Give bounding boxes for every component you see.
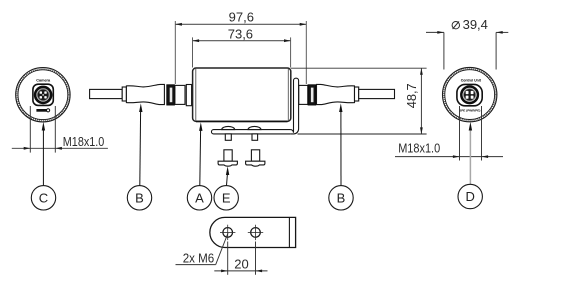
balloon B1 leader bbox=[139, 103, 142, 185]
bracket plate top view bbox=[210, 217, 296, 247]
bolt 1 (M6 screw) bbox=[218, 150, 237, 166]
svg-text:Control Unit: Control Unit bbox=[461, 78, 482, 82]
dimension 97,6 line bbox=[175, 23, 306, 25]
svg-text:39,4: 39,4 bbox=[463, 17, 488, 32]
svg-text:B: B bbox=[337, 190, 346, 205]
left cable bbox=[90, 89, 123, 98]
balloon C leader bbox=[42, 122, 45, 186]
right connector outer circle (knurled rim) bbox=[443, 67, 497, 121]
dimension 73,6 extension lines bbox=[193, 37, 291, 67]
M18x1.0 left dimension line bbox=[12, 147, 108, 149]
left nut cylinder bbox=[175, 85, 185, 104]
left connector pins bbox=[40, 91, 47, 98]
20 arrows bbox=[221, 270, 262, 273]
svg-text:M18x1.0: M18x1.0 bbox=[63, 134, 105, 149]
left knurled ring (dark) bbox=[167, 85, 175, 105]
left slot marking below connector bbox=[36, 109, 49, 112]
M18x1.0 right dimension line bbox=[395, 156, 503, 158]
right nut cylinder bbox=[299, 85, 308, 104]
right boot (strain relief) bbox=[317, 84, 355, 104]
left flange ring at body bbox=[186, 85, 191, 106]
Ø39,4 text with diameter symbol bbox=[452, 17, 488, 32]
svg-text:A: A bbox=[195, 190, 204, 205]
right connector socket ring bbox=[461, 87, 478, 104]
dimension 73,6 arrows bbox=[193, 39, 291, 42]
dimension 97,6 extension lines bbox=[175, 21, 306, 84]
20 dimension extension lines bbox=[228, 242, 256, 275]
svg-text:B: B bbox=[135, 190, 144, 205]
svg-text:M18x1.0: M18x1.0 bbox=[398, 141, 440, 156]
48,7 top extension line bbox=[291, 67, 427, 69]
svg-text:Camera: Camera bbox=[36, 78, 51, 82]
stud dome cap 2 on bracket bbox=[248, 126, 261, 129]
balloon C bbox=[31, 186, 55, 210]
svg-text:48,7: 48,7 bbox=[404, 83, 419, 108]
balloon B1 bbox=[127, 186, 151, 210]
M18x1.0 right extension lines bbox=[460, 106, 482, 161]
48,7 dimension line bbox=[420, 68, 422, 134]
balloon D bbox=[458, 184, 482, 208]
svg-text:2x M6: 2x M6 bbox=[183, 250, 215, 265]
hole 2 with crosshair bbox=[248, 225, 263, 240]
balloon A bbox=[187, 186, 211, 210]
2x M6 label with underline and leader bbox=[176, 233, 229, 265]
48,7 bottom extension line bbox=[298, 133, 427, 135]
dimension 73,6 line bbox=[193, 40, 291, 42]
svg-text:E: E bbox=[222, 190, 231, 205]
48,7 arrows bbox=[420, 68, 423, 134]
body right end cap line bbox=[287, 69, 289, 121]
balloon B2 leader bbox=[339, 103, 342, 185]
hole 1 with crosshair bbox=[220, 225, 235, 240]
balloon B2 bbox=[329, 186, 353, 210]
left cable collar bbox=[122, 87, 126, 101]
svg-text:SPE (PWR/PE): SPE (PWR/PE) bbox=[459, 108, 480, 112]
bracket bend and vertical flange bbox=[290, 78, 298, 134]
svg-text:D: D bbox=[466, 189, 475, 204]
M18x1.0 left arrows bbox=[24, 147, 62, 150]
balloon E leader bbox=[226, 166, 229, 185]
sensor body bbox=[193, 68, 291, 121]
20 dimension line bbox=[214, 270, 267, 272]
right connector body rounded square bbox=[457, 84, 482, 105]
body bottom edge emphasis bbox=[196, 120, 288, 122]
Ø39,4 extension lines bbox=[444, 32, 496, 69]
stud 1 below bracket bbox=[225, 134, 231, 140]
stud dome cap 1 on bracket bbox=[222, 126, 235, 129]
balloon E bbox=[214, 186, 238, 210]
svg-text:C: C bbox=[39, 190, 48, 205]
dimension 97,6 arrows bbox=[175, 23, 306, 26]
right connector pins (D-coded) bbox=[466, 91, 474, 99]
bracket bend line (top view) bbox=[288, 217, 290, 247]
stud 2 below bracket bbox=[252, 134, 258, 140]
Ø39,4 dimension line bbox=[426, 31, 508, 33]
balloon A leader bbox=[199, 122, 202, 185]
M18x1.0 right arrows bbox=[453, 155, 488, 158]
svg-text:97,6: 97,6 bbox=[229, 10, 254, 25]
svg-text:73,6: 73,6 bbox=[228, 26, 253, 41]
balloon D leader (gray) bbox=[469, 122, 472, 184]
svg-text:20: 20 bbox=[234, 257, 248, 272]
mounting bracket plate (side view) bbox=[211, 130, 290, 134]
right knurled ring (dark) bbox=[308, 85, 316, 105]
right cable bbox=[359, 89, 395, 98]
left connector body rounded square bbox=[33, 84, 53, 105]
Ø39,4 arrows bbox=[437, 31, 502, 34]
M18x1.0 left extension lines bbox=[30, 106, 55, 153]
body left end cap line bbox=[195, 69, 197, 121]
right cable collar bbox=[355, 87, 359, 101]
left connector socket ring bbox=[35, 87, 51, 103]
left connector outer circle (knurled rim) bbox=[16, 68, 70, 122]
left boot (strain relief) bbox=[126, 84, 164, 104]
bolt 2 (M6 screw) bbox=[246, 150, 265, 166]
